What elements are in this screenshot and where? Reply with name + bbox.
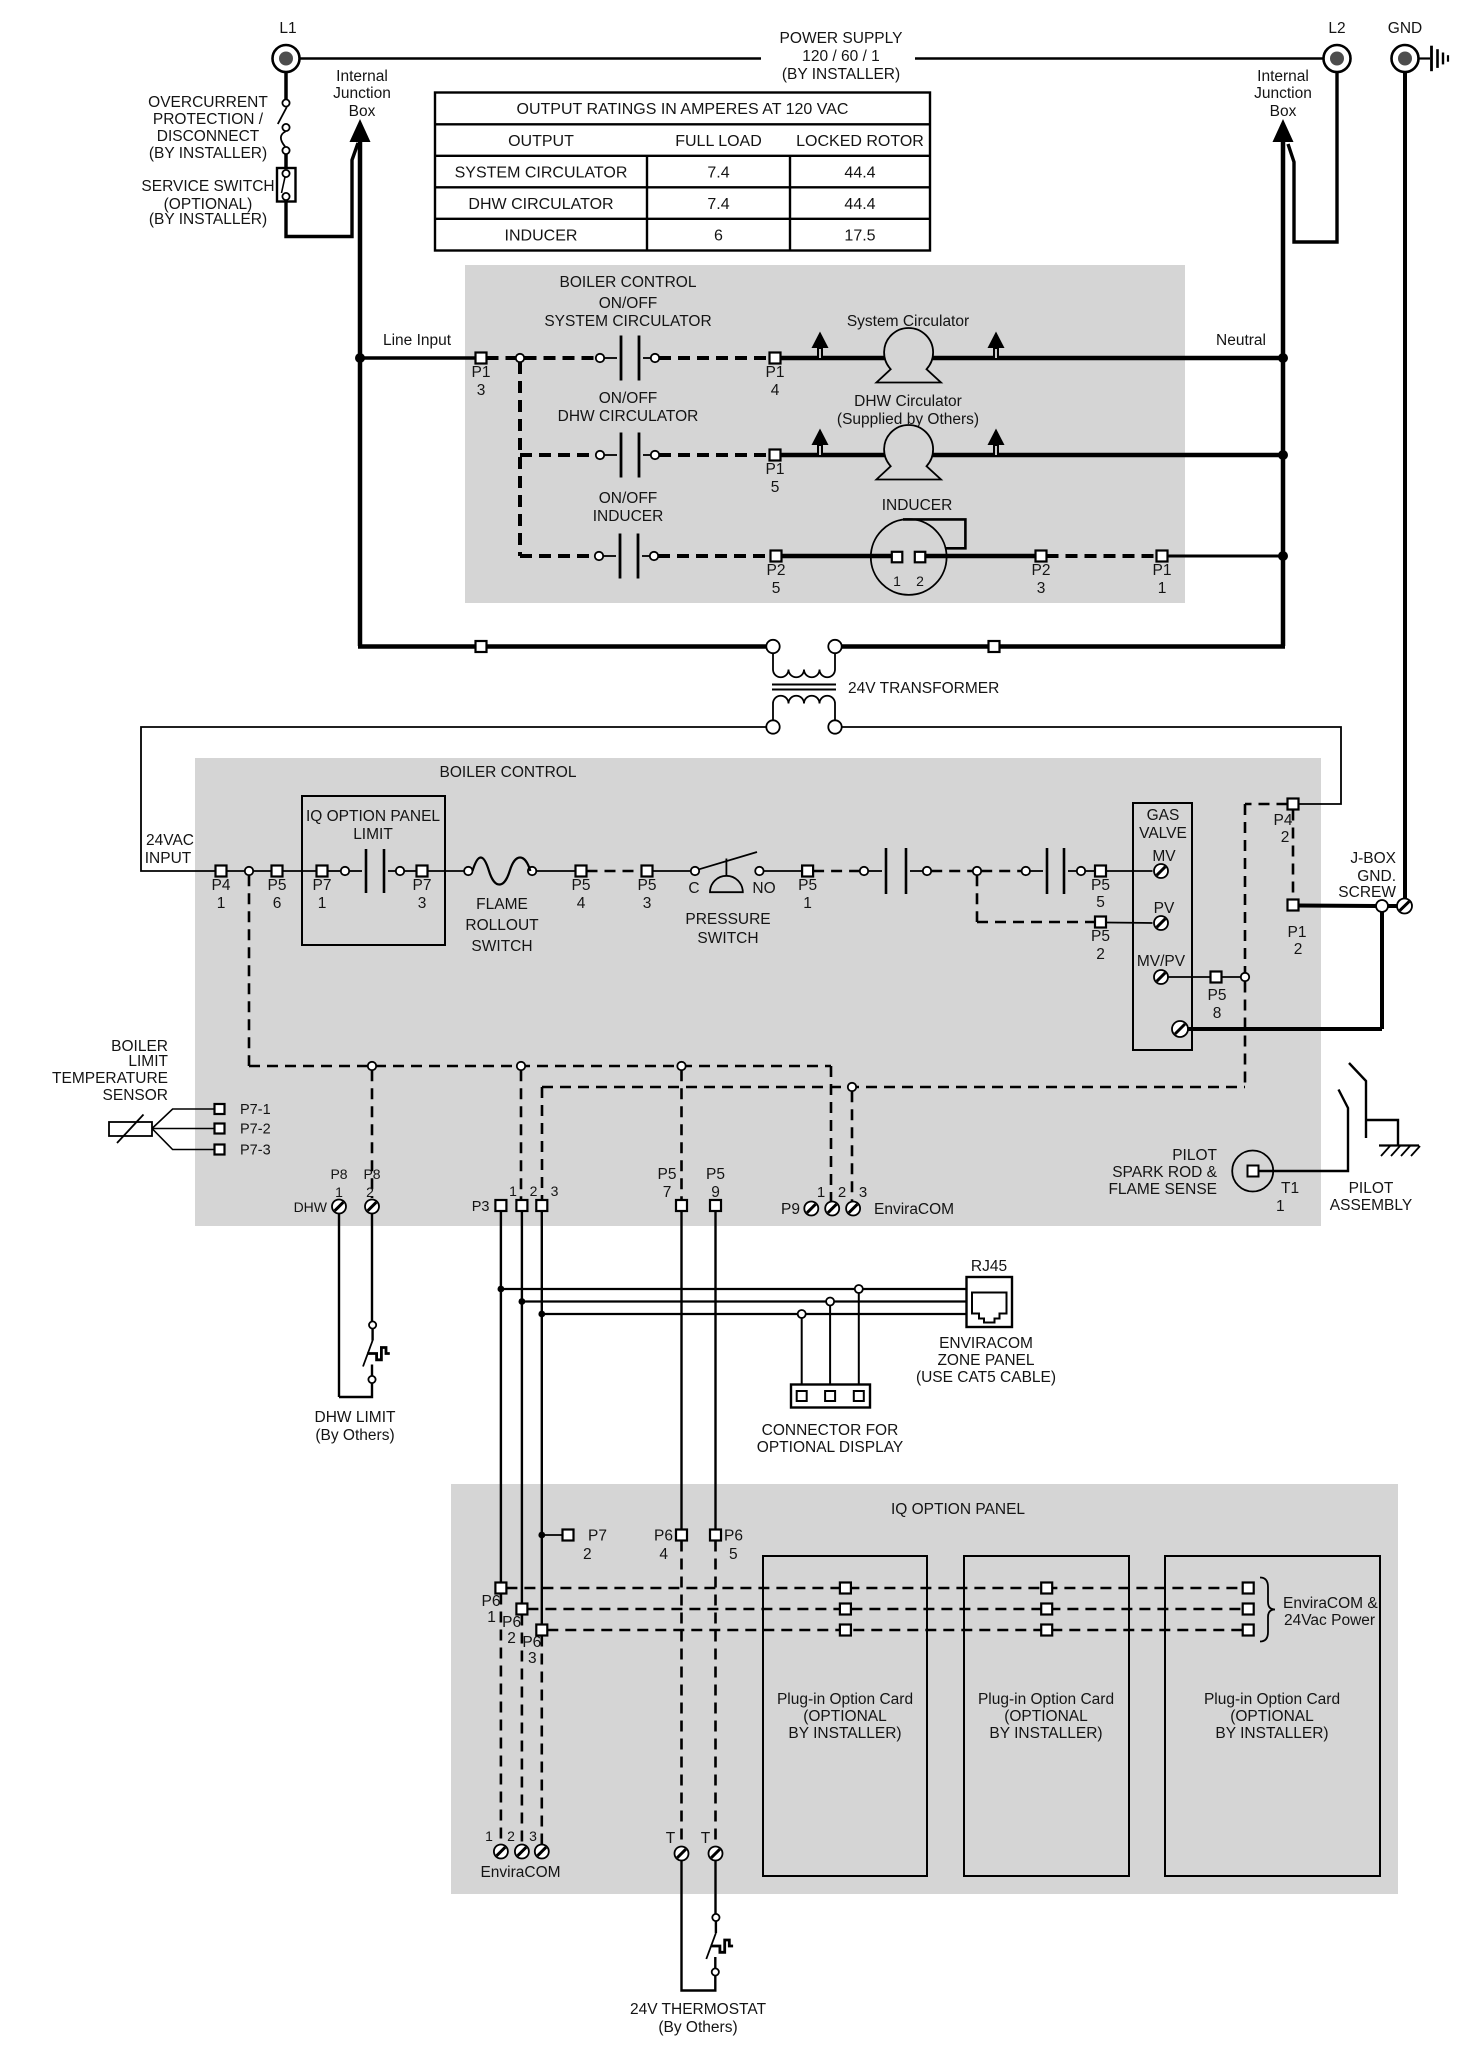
svg-text:9: 9 bbox=[711, 1184, 720, 1201]
connector P7-2 bbox=[563, 1530, 574, 1541]
svg-text:3: 3 bbox=[529, 1828, 537, 1844]
svg-text:24Vac Power: 24Vac Power bbox=[1284, 1612, 1375, 1629]
wire P5-3 to pressure switch common bbox=[653, 870, 691, 872]
svg-text:P7: P7 bbox=[588, 1528, 607, 1545]
connector P5-1 bbox=[802, 866, 813, 877]
plug-in option card 2 box bbox=[964, 1556, 1129, 1876]
svg-text:DHW Circulator: DHW Circulator bbox=[854, 393, 962, 410]
svg-text:FLAME: FLAME bbox=[476, 896, 528, 913]
wire to service switch bbox=[284, 155, 288, 169]
svg-text:P2: P2 bbox=[1032, 562, 1051, 579]
svg-text:CONNECTOR FOR: CONNECTOR FOR bbox=[762, 1422, 899, 1439]
node bus1 junction to P5-7 bbox=[677, 1062, 685, 1070]
connector P5-4 bbox=[576, 866, 587, 877]
svg-text:44.4: 44.4 bbox=[844, 196, 875, 213]
svg-text:P6: P6 bbox=[522, 1634, 541, 1651]
24V thermostat switch bbox=[712, 1914, 719, 1921]
svg-text:PV: PV bbox=[1154, 900, 1175, 917]
node GND terminal bbox=[1392, 45, 1419, 72]
svg-text:FULL LOAD: FULL LOAD bbox=[675, 133, 762, 150]
svg-text:P5: P5 bbox=[706, 1166, 725, 1183]
dashed drop P6-1 to terminal 1 bbox=[500, 1594, 503, 1845]
dashed drop to P3-2 bbox=[520, 1070, 523, 1199]
svg-text:7: 7 bbox=[663, 1184, 672, 1201]
node 24VAC junction bbox=[245, 867, 253, 875]
svg-text:SENSOR: SENSOR bbox=[103, 1087, 168, 1104]
svg-text:(BY INSTALLER): (BY INSTALLER) bbox=[782, 66, 900, 83]
connector P4-1 bbox=[216, 866, 227, 877]
svg-text:ASSEMBLY: ASSEMBLY bbox=[1330, 1197, 1412, 1214]
junction box entry arrow (right) bbox=[1273, 119, 1294, 142]
svg-text:7.4: 7.4 bbox=[707, 165, 729, 182]
svg-text:GND: GND bbox=[1388, 20, 1422, 37]
wire P8-2 down to DHW limit bbox=[371, 1214, 373, 1322]
svg-text:P7-2: P7-2 bbox=[240, 1122, 271, 1138]
svg-text:2: 2 bbox=[507, 1630, 516, 1647]
svg-text:BY INSTALLER): BY INSTALLER) bbox=[1215, 1725, 1328, 1742]
wire P1-4 to neutral bbox=[781, 356, 1282, 361]
safety relay contact 1 bbox=[860, 867, 868, 875]
safety relay contact 2 bbox=[1022, 867, 1030, 875]
svg-text:1: 1 bbox=[335, 1184, 343, 1200]
display connector drop wires bbox=[858, 1293, 860, 1391]
svg-text:ON/OFF: ON/OFF bbox=[599, 295, 658, 312]
pilot assembly ground arm bbox=[1366, 1120, 1398, 1145]
dashed drop to P8-2 bbox=[371, 1070, 374, 1198]
connector P7-1 bbox=[317, 866, 328, 877]
svg-text:P5: P5 bbox=[572, 877, 591, 894]
dashed wire P5-4 to P5-3 bbox=[587, 870, 642, 873]
connector P1-2 bbox=[1288, 900, 1299, 911]
pilot ground hatch bbox=[1379, 1144, 1419, 1146]
dashed wire contact 1 to junction bbox=[931, 870, 972, 873]
svg-text:P5: P5 bbox=[1091, 928, 1110, 945]
IQ limit contact bbox=[328, 870, 342, 872]
wire MV/PV to P5-8 bbox=[1168, 976, 1211, 978]
svg-text:2: 2 bbox=[366, 1184, 374, 1200]
DHW limit switch bbox=[369, 1321, 376, 1328]
boiler control box 1 (line voltage section) background bbox=[465, 265, 1185, 603]
svg-text:OUTPUT RATINGS IN AMPERES AT 1: OUTPUT RATINGS IN AMPERES AT 120 VAC bbox=[517, 101, 849, 118]
svg-text:24V THERMOSTAT: 24V THERMOSTAT bbox=[630, 2001, 767, 2018]
svg-text:2: 2 bbox=[1096, 946, 1105, 963]
dashed drop bus1 to P9-2 bbox=[830, 1066, 833, 1201]
svg-text:C: C bbox=[688, 880, 699, 897]
boiler limit temperature sensor RT1 bbox=[109, 1122, 152, 1136]
connector P1-4 bbox=[770, 353, 781, 364]
node L1 terminal bbox=[273, 45, 300, 72]
connector P1-3 bbox=[476, 353, 487, 364]
dashed drop P6-3 to terminal 3 bbox=[540, 1636, 543, 1845]
dashed wire K1 to P1-4 bbox=[659, 356, 770, 360]
svg-text:1: 1 bbox=[487, 1609, 496, 1626]
dashed 24VAC bus down from junction bbox=[248, 875, 251, 1066]
output ratings table bbox=[435, 93, 930, 251]
svg-text:3: 3 bbox=[1037, 580, 1046, 597]
wire tap to P7-2 bbox=[542, 1534, 563, 1536]
svg-text:3: 3 bbox=[551, 1183, 559, 1199]
dashed wire P6-5 down to T bbox=[714, 1541, 717, 1846]
wire flame rollout to P5-4 bbox=[536, 870, 575, 872]
svg-text:1: 1 bbox=[803, 895, 812, 912]
wire P3-2 down to IQ panel bbox=[521, 1211, 523, 1603]
dashed feed wire down to other relays bbox=[518, 362, 522, 556]
comm bus wire 1 to RJ45 bbox=[501, 1288, 967, 1290]
IQ option panel limit box bbox=[302, 796, 445, 945]
svg-text:120 / 60 / 1: 120 / 60 / 1 bbox=[802, 48, 880, 65]
rail connector square left bbox=[476, 641, 487, 652]
svg-text:P1: P1 bbox=[1288, 924, 1307, 941]
svg-text:P7-1: P7-1 bbox=[240, 1102, 271, 1118]
svg-text:DISCONNECT: DISCONNECT bbox=[157, 128, 260, 145]
option card 3 bus pins bbox=[1243, 1583, 1254, 1594]
sensor wires to P7 connectors bbox=[152, 1109, 214, 1129]
svg-text:P5: P5 bbox=[658, 1166, 677, 1183]
connector for optional display bbox=[791, 1385, 870, 1408]
svg-text:Box: Box bbox=[349, 103, 376, 120]
svg-text:2: 2 bbox=[583, 1546, 592, 1563]
relay contact K2 (DHW circulator) bbox=[596, 451, 604, 459]
service switch box bbox=[277, 168, 296, 202]
svg-text:INDUCER: INDUCER bbox=[882, 497, 953, 514]
svg-text:PRESSURE: PRESSURE bbox=[685, 911, 770, 928]
svg-text:RJ45: RJ45 bbox=[971, 1258, 1007, 1275]
wire P1-2 to ground junction bbox=[1299, 904, 1377, 909]
node bus junction 2 bbox=[519, 1298, 526, 1305]
dashed wire down to MV/PV junction bbox=[1244, 804, 1247, 973]
svg-text:4: 4 bbox=[577, 895, 586, 912]
svg-text:INDUCER: INDUCER bbox=[505, 228, 578, 245]
svg-text:BY INSTALLER): BY INSTALLER) bbox=[788, 1725, 901, 1742]
wire inducer pin 2 to P2-3 bbox=[926, 554, 1036, 559]
svg-text:(OPTIONAL: (OPTIONAL bbox=[1230, 1708, 1314, 1725]
inducer blower symbol bbox=[871, 519, 947, 595]
node line input junction bbox=[355, 353, 365, 363]
connector P6-1 bbox=[495, 1583, 506, 1594]
svg-text:2: 2 bbox=[838, 1184, 846, 1201]
svg-text:DHW CIRCULATOR: DHW CIRCULATOR bbox=[468, 196, 613, 213]
connector P7-2 bbox=[215, 1124, 225, 1134]
junction box entry arrow (left) bbox=[350, 119, 371, 142]
svg-text:TEMPERATURE: TEMPERATURE bbox=[52, 1070, 168, 1087]
wire service switch down and right to junction box entry bbox=[286, 143, 358, 237]
svg-text:24VAC: 24VAC bbox=[146, 832, 194, 849]
svg-text:SWITCH: SWITCH bbox=[471, 938, 532, 955]
svg-text:3: 3 bbox=[643, 895, 652, 912]
dashed wire P2-3 to P1-1 bbox=[1047, 554, 1157, 558]
svg-text:Plug-in Option Card: Plug-in Option Card bbox=[777, 1691, 913, 1708]
svg-text:GND.: GND. bbox=[1357, 868, 1396, 885]
wire P3-3 down to IQ panel bbox=[541, 1211, 543, 1624]
svg-text:SERVICE SWITCH: SERVICE SWITCH bbox=[141, 178, 274, 195]
circuit breaker arc bbox=[281, 132, 286, 147]
dashed wire P6-4 down to T bbox=[680, 1541, 683, 1846]
svg-text:NO: NO bbox=[752, 880, 775, 897]
wire L2 down and left to junction box entry bbox=[1288, 72, 1337, 242]
dashed EnviraCOM bus C bbox=[547, 1629, 1242, 1632]
wire L1 to power supply label bbox=[300, 57, 761, 59]
svg-text:DHW: DHW bbox=[294, 1199, 328, 1215]
wire P4-1 to P5-6 bbox=[227, 870, 272, 872]
dashed drop bus2 to P3-3 bbox=[541, 1087, 544, 1200]
dashed wire junction to safety contact 2 bbox=[981, 870, 1021, 873]
dashed bus line 1 horizontal bbox=[249, 1065, 831, 1068]
svg-text:Junction: Junction bbox=[1254, 85, 1312, 102]
svg-text:SCREW: SCREW bbox=[1338, 884, 1396, 901]
node MV/PV dashed junction bbox=[1241, 973, 1249, 981]
earth ground symbol at GND bbox=[1419, 57, 1431, 59]
plug-in option card 3 box bbox=[1165, 1556, 1380, 1876]
svg-text:P5: P5 bbox=[638, 877, 657, 894]
dashed drop bus2 to P9-3 bbox=[851, 1091, 854, 1201]
dashed wire K3 to P2-5 bbox=[658, 554, 771, 558]
bottom rail wire right segment bbox=[842, 644, 1286, 649]
svg-text:P8: P8 bbox=[363, 1166, 380, 1182]
svg-text:4: 4 bbox=[659, 1546, 668, 1563]
EnviraCOM & 24Vac power brace bbox=[1260, 1578, 1275, 1642]
svg-text:Internal: Internal bbox=[336, 68, 388, 85]
wire P8-1 down bbox=[338, 1214, 340, 1398]
gas valve ground terminal bbox=[1172, 1021, 1188, 1037]
svg-text:2: 2 bbox=[1281, 829, 1290, 846]
node neutral junction line 3 bbox=[1278, 551, 1288, 561]
svg-text:(By Others): (By Others) bbox=[315, 1427, 394, 1444]
connector P6-3 bbox=[536, 1625, 547, 1636]
pilot assembly electrodes bbox=[1349, 1063, 1366, 1138]
connector P1-1 bbox=[1157, 551, 1168, 562]
inducer pin 2 bbox=[915, 552, 926, 563]
svg-text:P5: P5 bbox=[1208, 987, 1227, 1004]
connector P6-2 bbox=[516, 1604, 527, 1615]
svg-text:P5: P5 bbox=[1091, 877, 1110, 894]
svg-text:24V TRANSFORMER: 24V TRANSFORMER bbox=[848, 680, 999, 697]
bottom rail wire left segment bbox=[358, 644, 767, 649]
svg-text:(BY INSTALLER): (BY INSTALLER) bbox=[149, 211, 267, 228]
secondary wire left to 24VAC input bbox=[141, 727, 766, 871]
svg-text:P1: P1 bbox=[766, 461, 785, 478]
dashed wire feed to relay K3 bbox=[520, 554, 595, 558]
svg-text:T1: T1 bbox=[1281, 1180, 1299, 1197]
wire P5-6 to P7-1 bbox=[283, 870, 317, 872]
24V transformer T1 bbox=[766, 640, 779, 653]
svg-text:2: 2 bbox=[530, 1183, 538, 1199]
connector P5-6 bbox=[272, 866, 283, 877]
svg-text:IQ OPTION PANEL: IQ OPTION PANEL bbox=[891, 1501, 1025, 1518]
overcurrent disconnect switch bbox=[282, 99, 289, 106]
svg-text:P4: P4 bbox=[1274, 812, 1293, 829]
gas valve box bbox=[1133, 803, 1192, 1050]
svg-text:LIMIT: LIMIT bbox=[353, 826, 393, 843]
svg-text:4: 4 bbox=[771, 382, 780, 399]
connector P7-3 bbox=[417, 866, 428, 877]
svg-text:SWITCH: SWITCH bbox=[697, 930, 758, 947]
svg-text:3: 3 bbox=[528, 1650, 537, 1667]
dashed wire feed to relay K2 bbox=[520, 453, 596, 457]
relay contact K3 (inducer) bbox=[595, 552, 603, 560]
svg-text:5: 5 bbox=[771, 479, 780, 496]
svg-text:6: 6 bbox=[273, 895, 282, 912]
svg-text:P6: P6 bbox=[482, 1593, 501, 1610]
boiler control box 2 (24V section) background bbox=[195, 758, 1321, 1226]
svg-text:1: 1 bbox=[817, 1184, 825, 1201]
node neutral junction line 2 bbox=[1278, 450, 1288, 460]
svg-text:T: T bbox=[666, 1830, 676, 1847]
svg-text:1: 1 bbox=[1158, 580, 1167, 597]
svg-text:DHW CIRCULATOR: DHW CIRCULATOR bbox=[558, 408, 699, 425]
svg-text:1: 1 bbox=[1276, 1198, 1285, 1215]
option card 2 bus pins bbox=[1041, 1583, 1052, 1594]
node bus1 junction to P8-2 bbox=[368, 1062, 376, 1070]
svg-text:2: 2 bbox=[507, 1828, 515, 1844]
J-box ground screw bbox=[1388, 904, 1397, 908]
svg-text:Plug-in Option Card: Plug-in Option Card bbox=[978, 1691, 1114, 1708]
svg-text:INDUCER: INDUCER bbox=[593, 508, 664, 525]
node bus junction 1 bbox=[498, 1286, 505, 1293]
svg-text:(BY INSTALLER): (BY INSTALLER) bbox=[149, 145, 267, 162]
svg-text:DHW LIMIT: DHW LIMIT bbox=[315, 1409, 396, 1426]
wire P5-8 to dashed junction bbox=[1222, 976, 1241, 978]
svg-text:2: 2 bbox=[916, 573, 924, 589]
svg-text:5: 5 bbox=[729, 1546, 738, 1563]
svg-text:P3: P3 bbox=[472, 1199, 490, 1215]
svg-text:1: 1 bbox=[893, 573, 901, 589]
svg-text:P6: P6 bbox=[654, 1528, 673, 1545]
svg-text:P8: P8 bbox=[330, 1166, 347, 1182]
connector P7-3 bbox=[215, 1145, 225, 1155]
svg-text:8: 8 bbox=[1213, 1005, 1222, 1022]
svg-text:(OPTIONAL: (OPTIONAL bbox=[803, 1708, 887, 1725]
dashed bus line 2 horizontal bbox=[542, 1086, 1245, 1089]
svg-text:ON/OFF: ON/OFF bbox=[599, 390, 658, 407]
comm bus wire 3 to RJ45 bbox=[542, 1313, 967, 1315]
svg-text:5: 5 bbox=[772, 580, 781, 597]
svg-text:P9: P9 bbox=[781, 1201, 800, 1218]
svg-text:SPARK ROD &: SPARK ROD & bbox=[1112, 1164, 1217, 1181]
node bus2 junction to P9-3 bbox=[848, 1083, 856, 1091]
ground wire junction down to gas valve bbox=[1380, 912, 1384, 1029]
comm bus wire 2 to RJ45 bbox=[522, 1300, 967, 1302]
svg-text:GAS: GAS bbox=[1147, 807, 1180, 824]
svg-text:IQ OPTION PANEL: IQ OPTION PANEL bbox=[306, 808, 440, 825]
svg-text:POWER SUPPLY: POWER SUPPLY bbox=[780, 30, 903, 47]
svg-text:PILOT: PILOT bbox=[1172, 1147, 1217, 1164]
wire P7-3 to flame rollout bbox=[428, 870, 465, 872]
wire NO to P5-1 bbox=[764, 870, 802, 872]
svg-text:ROLLOUT: ROLLOUT bbox=[465, 917, 539, 934]
connector P2-5 bbox=[771, 551, 782, 562]
svg-text:P1: P1 bbox=[1153, 562, 1172, 579]
dashed wire P1-3 to relay K1 bbox=[487, 356, 597, 360]
svg-text:J-BOX: J-BOX bbox=[1350, 850, 1396, 867]
svg-text:PROTECTION /: PROTECTION / bbox=[153, 111, 264, 128]
wire P5-5 to gas valve MV bbox=[1106, 870, 1153, 872]
connector P3-2 bbox=[516, 1200, 527, 1211]
dashed wire K2 to P1-5 bbox=[659, 453, 770, 457]
relay contact K1 (system circulator) bbox=[596, 354, 604, 362]
dashed wire P4-2 left bbox=[1245, 803, 1288, 806]
wire T left down bbox=[682, 1861, 717, 1991]
svg-text:1: 1 bbox=[485, 1828, 493, 1844]
inducer pin 1 bbox=[892, 552, 903, 563]
svg-text:P2: P2 bbox=[767, 562, 786, 579]
svg-text:P7: P7 bbox=[413, 877, 432, 894]
svg-text:Box: Box bbox=[1270, 103, 1297, 120]
plug direction arrow bbox=[812, 332, 829, 349]
svg-text:Internal: Internal bbox=[1257, 68, 1309, 85]
svg-text:BOILER CONTROL: BOILER CONTROL bbox=[440, 764, 577, 781]
svg-text:L2: L2 bbox=[1328, 20, 1345, 37]
dashed EnviraCOM bus A bbox=[506, 1587, 1242, 1590]
svg-text:MV: MV bbox=[1152, 848, 1176, 865]
node display tap 3 bbox=[855, 1285, 863, 1293]
svg-text:(USE CAT5 CABLE): (USE CAT5 CABLE) bbox=[916, 1369, 1056, 1386]
connector P5-2 bbox=[1095, 917, 1106, 928]
svg-text:OUTPUT: OUTPUT bbox=[508, 133, 574, 150]
plug direction arrow bbox=[812, 429, 829, 446]
dashed drop P6-2 to terminal 2 bbox=[521, 1615, 524, 1845]
svg-text:L1: L1 bbox=[279, 20, 296, 37]
node display tap 1 bbox=[798, 1310, 806, 1318]
svg-text:(By Others): (By Others) bbox=[658, 2019, 737, 2036]
secondary wire right to P4-2 bbox=[842, 727, 1341, 804]
svg-text:P5: P5 bbox=[268, 877, 287, 894]
svg-text:ZONE PANEL: ZONE PANEL bbox=[937, 1352, 1034, 1369]
line input feed wire (left vertical) bbox=[358, 141, 363, 646]
svg-text:EnviraCOM: EnviraCOM bbox=[480, 1864, 560, 1881]
svg-text:P6: P6 bbox=[502, 1614, 521, 1631]
terminal T1-1 spark bbox=[1232, 1151, 1273, 1192]
node L2 terminal bbox=[1324, 45, 1351, 72]
connector P1-5 bbox=[770, 450, 781, 461]
svg-text:SYSTEM CIRCULATOR: SYSTEM CIRCULATOR bbox=[455, 165, 628, 182]
wire P5-7 down to P6-4 bbox=[680, 1211, 682, 1529]
dashed EnviraCOM bus B bbox=[527, 1608, 1242, 1611]
connector P5-3 bbox=[642, 866, 653, 877]
svg-text:P7: P7 bbox=[313, 877, 332, 894]
node ground junction bbox=[1376, 900, 1388, 912]
node bus1 junction to P3-2 bbox=[517, 1062, 525, 1070]
wire L1 down to overcurrent switch bbox=[284, 72, 288, 99]
node neutral junction line 1 bbox=[1278, 353, 1288, 363]
rail connector square right bbox=[989, 641, 1000, 652]
svg-text:1: 1 bbox=[509, 1183, 517, 1199]
svg-text:BY INSTALLER): BY INSTALLER) bbox=[989, 1725, 1102, 1742]
svg-text:ON/OFF: ON/OFF bbox=[599, 490, 658, 507]
wire line input to P1-3 bbox=[360, 356, 476, 359]
svg-text:T: T bbox=[701, 1830, 711, 1847]
pressure switch bbox=[691, 867, 699, 875]
svg-text:VALVE: VALVE bbox=[1139, 825, 1187, 842]
svg-text:44.4: 44.4 bbox=[844, 165, 875, 182]
wire contact 2 to P5-5 bbox=[1085, 870, 1095, 872]
svg-text:P4: P4 bbox=[212, 877, 231, 894]
svg-text:P1: P1 bbox=[472, 364, 491, 381]
svg-text:(OPTIONAL: (OPTIONAL bbox=[1004, 1708, 1088, 1725]
connector P7-1 bbox=[215, 1104, 225, 1114]
svg-text:3: 3 bbox=[477, 382, 486, 399]
connector P6-4 bbox=[676, 1530, 687, 1541]
svg-text:Junction: Junction bbox=[333, 85, 391, 102]
svg-text:OPTIONAL DISPLAY: OPTIONAL DISPLAY bbox=[757, 1439, 903, 1456]
wire P3-1 down to IQ panel bbox=[500, 1211, 502, 1582]
svg-text:P5: P5 bbox=[798, 877, 817, 894]
DHW circulator motor symbol bbox=[876, 425, 941, 480]
flame rollout switch bbox=[464, 867, 472, 875]
plug-in option card 1 box bbox=[763, 1556, 927, 1876]
node dashed feed junction bbox=[516, 354, 524, 362]
connector P5-5 bbox=[1095, 866, 1106, 877]
dashed wire P5-1 to safety contact 1 bbox=[813, 870, 859, 873]
